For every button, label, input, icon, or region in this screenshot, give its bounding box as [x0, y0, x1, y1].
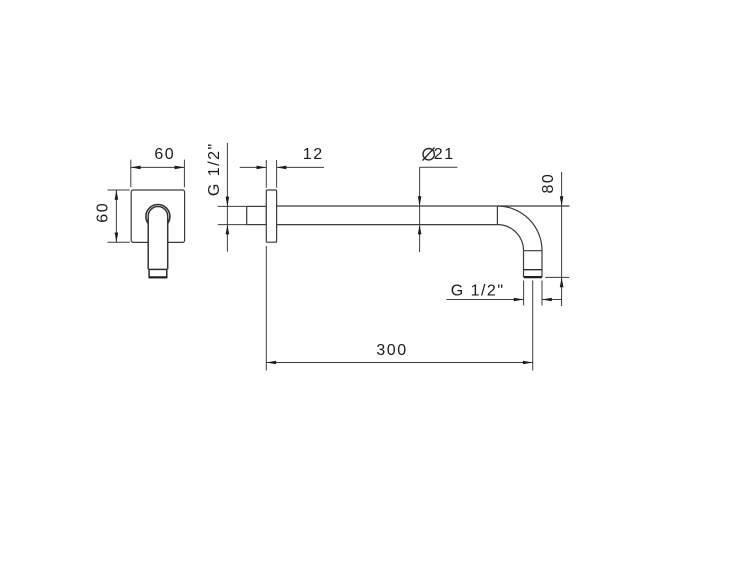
side view thread stub [247, 206, 267, 224]
dim 300: dimension line [266, 362, 532, 364]
svg-text:G 1/2": G 1/2" [206, 142, 223, 196]
dim 80: dimension line [561, 172, 563, 306]
side view pipe/elbow joint [496, 206, 498, 225]
front view collar circle [146, 205, 170, 229]
dim d21: lower arrow [418, 225, 422, 235]
dim d21: dimension line [419, 167, 421, 252]
outlet tip bottom edge [524, 276, 542, 278]
dim 12: left arrow [257, 166, 267, 170]
dim 12: extension lines [265, 160, 267, 188]
dim 60 top: left arrow [131, 166, 141, 170]
dim G 1/2 bottom: dimension line left segment [446, 299, 523, 301]
dim 60 top: right arrow [175, 166, 185, 170]
dim d21: upper arrow [418, 196, 422, 206]
front view pipe [148, 207, 168, 270]
svg-text:60: 60 [154, 146, 175, 163]
dim G 1/2 bottom: right arrow [542, 298, 552, 302]
svg-text:G 1/2": G 1/2" [451, 282, 505, 299]
outlet right edge [541, 251, 543, 278]
dim d21: text [423, 149, 434, 160]
dim 60 left: dimension line [115, 190, 117, 242]
dim 80: bottom arrow [560, 277, 564, 287]
dim G 1/2 left: upper arrow [226, 197, 230, 207]
side view wall plate [266, 190, 276, 242]
dim G 1/2 bottom: left arrow [514, 298, 524, 302]
dim 300: right arrow [523, 361, 533, 365]
dim G 1/2 left: dimension line [226, 143, 228, 252]
side view pipe top edge (extends as 80 extension line) [277, 205, 570, 207]
dim 60 top: dimension line [131, 166, 185, 168]
svg-text:21: 21 [434, 146, 455, 163]
outlet left edge [523, 251, 525, 278]
dim 80: bottom extension line [545, 276, 569, 278]
dim G 1/2 bottom: extension lines [523, 281, 525, 306]
dim 300: left arrow [266, 361, 276, 365]
outlet/tip joint line [524, 269, 543, 271]
dim G 1/2 left: extension lines [218, 205, 247, 207]
side view pipe bottom edge [277, 224, 498, 226]
dim 60 left: bottom arrow [115, 233, 119, 243]
outlet centre extension line [532, 281, 534, 371]
elbow/outlet joint line [524, 250, 543, 252]
dim G 1/2 left: lower arrow [226, 225, 230, 235]
dim 300: left extension line [265, 246, 267, 371]
dim 12: dimension line right segment [277, 166, 324, 168]
dim 60 left: extension lines [108, 189, 130, 191]
elbow inner arc [497, 225, 523, 251]
svg-text:300: 300 [376, 342, 407, 359]
svg-text:12: 12 [303, 146, 324, 163]
dim G 1/2 bottom: dimension line right segment [542, 299, 562, 301]
front view tip bottom edge [149, 276, 167, 278]
front view wall plate [131, 190, 184, 242]
dim 12: dimension line left segment [240, 166, 267, 168]
front view pipe tip [149, 269, 167, 277]
svg-text:60: 60 [95, 202, 112, 223]
dim 60 top: extension lines [130, 160, 132, 188]
dim 80: top arrow [560, 196, 564, 206]
dim 60 left: top arrow [115, 190, 119, 200]
dim 12: right arrow [277, 166, 287, 170]
elbow outer arc [497, 206, 542, 251]
dim d21: shoulder [420, 166, 458, 168]
svg-text:80: 80 [540, 173, 557, 194]
